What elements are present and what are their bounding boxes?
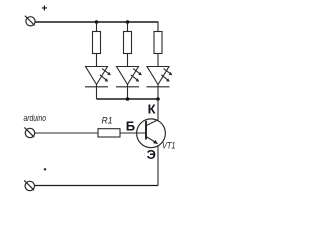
wire rail to resistor col3 [157,21,159,31]
wire resistor to LED col2 [127,54,129,67]
node junction bottom rail col3 [156,97,160,101]
wire base right [120,132,146,134]
terminal X1 (+) [25,16,35,26]
resistor col1 [93,32,101,54]
wire top rail [35,21,158,23]
wire resistor to LED col3 [157,54,159,67]
node junction top rail col1 [95,20,99,24]
wire rail to resistor col1 [96,22,98,32]
wire rail to resistor col2 [127,22,129,32]
svg-text:VT1: VT1 [162,141,176,151]
svg-text:К: К [148,102,156,117]
label - [44,168,46,170]
wire collector [157,99,159,121]
svg-text:+: + [42,4,48,15]
wire resistor to LED col1 [96,54,98,67]
svg-text:Б: Б [126,118,135,133]
node junction bottom rail col2 [126,97,130,101]
svg-text:Э: Э [147,147,156,162]
resistor col2 [124,32,132,54]
resistor col3 [154,32,162,54]
resistor R1 [98,129,120,137]
node junction top rail col2 [126,20,130,24]
emitter arrow [153,140,158,144]
transistor VT1 [137,119,166,148]
svg-text:arduino: arduino [24,113,47,124]
LED D2 [116,67,141,100]
terminal arduino [24,127,34,137]
wire base left [35,132,98,134]
LED D1 [85,67,110,100]
LED D3 [147,67,172,100]
wire bottom rail [97,98,159,100]
svg-text:R1: R1 [102,116,113,126]
wire bottom return [35,185,159,187]
wire emitter down [157,145,159,186]
terminal X2 (-) [24,180,34,190]
